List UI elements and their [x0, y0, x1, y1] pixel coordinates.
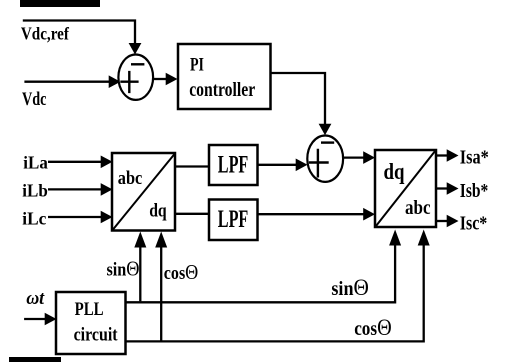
svg-text:Vdc: Vdc — [22, 89, 47, 110]
svg-text:sinΘ: sinΘ — [107, 256, 140, 280]
svg-text:LPF: LPF — [218, 151, 249, 178]
svg-text:ωt: ωt — [26, 288, 45, 309]
svg-text:PLL: PLL — [75, 299, 104, 320]
svg-text:LPF: LPF — [218, 206, 249, 233]
svg-text:circuit: circuit — [74, 324, 119, 345]
svg-text:cosΘ: cosΘ — [354, 315, 392, 340]
svg-text:cosΘ: cosΘ — [164, 260, 199, 284]
svg-text:abc: abc — [405, 197, 431, 219]
svg-text:iLc: iLc — [22, 208, 46, 228]
svg-text:dq: dq — [149, 201, 167, 222]
svg-text:abc: abc — [118, 168, 143, 189]
svg-text:sinΘ: sinΘ — [331, 275, 369, 300]
svg-text:PI: PI — [190, 54, 204, 75]
svg-text:iLa: iLa — [23, 152, 48, 172]
svg-text:Isb*: Isb* — [460, 180, 489, 202]
svg-text:controller: controller — [189, 79, 255, 101]
svg-text:Isc*: Isc* — [460, 213, 488, 235]
svg-text:Isa*: Isa* — [460, 146, 489, 168]
svg-text:dq: dq — [384, 159, 405, 184]
svg-text:iLb: iLb — [22, 180, 48, 200]
svg-text:Vdc,ref: Vdc,ref — [21, 24, 70, 44]
